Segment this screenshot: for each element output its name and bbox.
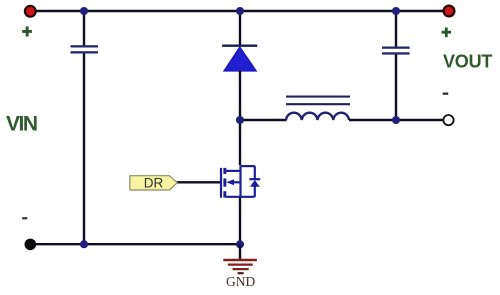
wire right branch upper (C2 top) bbox=[395, 11, 397, 47]
wire bottom rail bbox=[30, 243, 240, 245]
terminal VOUT- bbox=[443, 115, 453, 125]
wire inductor to output node bbox=[349, 119, 449, 121]
wire MOSFET source bbox=[239, 198, 241, 245]
diode D1 bbox=[222, 46, 257, 71]
wire MOSFET drain bbox=[239, 120, 241, 166]
ground symbol bbox=[223, 260, 257, 273]
terminal VOUT+ bbox=[444, 6, 455, 17]
label minus left bbox=[22, 217, 27, 219]
wire top rail bbox=[30, 10, 449, 12]
junction node switch bbox=[236, 116, 244, 124]
svg-text:DR: DR bbox=[144, 176, 164, 191]
body diode of Q1 bbox=[249, 179, 260, 187]
wire switch node vertical bbox=[239, 71, 241, 120]
label plus left bbox=[22, 26, 32, 36]
wire right branch lower (C2 bottom) bbox=[395, 54, 397, 120]
DR signal flag bbox=[130, 176, 177, 191]
wire gate lead bbox=[177, 181, 221, 183]
inductor L1 winding bbox=[286, 113, 349, 120]
svg-text:VOUT: VOUT bbox=[443, 51, 492, 71]
transistor Q1 bbox=[221, 166, 255, 198]
junction node top diode bbox=[236, 7, 244, 15]
label minus right bbox=[443, 93, 449, 95]
junction node top right bbox=[392, 7, 400, 15]
ground wire bbox=[239, 244, 241, 259]
svg-text:VIN: VIN bbox=[6, 113, 37, 136]
wire left branch upper (C1 top) bbox=[83, 11, 85, 46]
wire switch node to inductor bbox=[240, 119, 287, 121]
capacitor C2 bbox=[382, 47, 410, 55]
junction node output bbox=[392, 116, 400, 124]
capacitor C1 bbox=[71, 45, 99, 53]
wire diode anode (top) bbox=[239, 11, 241, 45]
svg-text:GND: GND bbox=[226, 274, 255, 289]
junction node top-left bbox=[80, 7, 88, 15]
label plus right bbox=[442, 28, 452, 38]
junction node bottom-left bbox=[80, 240, 88, 248]
terminal VIN- bbox=[25, 239, 37, 251]
junction node ground bbox=[236, 240, 244, 248]
inductor L1 core lines bbox=[286, 97, 350, 105]
wire left branch lower (C1 bottom) bbox=[83, 53, 85, 244]
terminal VIN+ bbox=[25, 6, 36, 17]
